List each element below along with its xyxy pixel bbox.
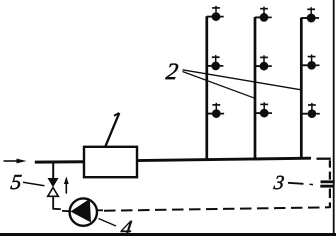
valve V4 riser1 middle xyxy=(207,55,224,70)
leader dash for label 3 xyxy=(288,183,304,184)
label 5 xyxy=(10,175,21,189)
label 4 xyxy=(120,221,132,235)
valve V9 riser3 bottom xyxy=(301,103,320,118)
stub below valve 5 xyxy=(52,197,54,207)
wire dashed expansion drop segment 3 xyxy=(329,189,331,198)
wire dash from main to corner xyxy=(317,158,331,160)
leader line label2 to riser3 xyxy=(183,70,302,90)
valve V2 riser2 top xyxy=(255,7,272,22)
valve V7 riser1 bottom xyxy=(207,103,224,118)
bottom border line xyxy=(0,233,336,236)
valve V1 riser1 top xyxy=(207,6,224,21)
leader line for label 4 xyxy=(99,219,117,227)
valve 5 bowtie bottom open triangle xyxy=(48,188,59,197)
riser pipe 2 xyxy=(254,17,257,160)
pump P circle xyxy=(70,198,97,225)
label 1 xyxy=(105,113,120,148)
right border line xyxy=(333,0,335,235)
expansion tank connection 3 (two bars) xyxy=(321,180,335,183)
wire dashed expansion drop segment 2 xyxy=(329,172,331,180)
label 3 xyxy=(273,176,284,189)
valve V6 riser3 middle xyxy=(301,55,319,70)
leader line label2 to riser2 xyxy=(183,72,256,99)
wire main supply pipe left segment xyxy=(35,160,85,163)
wire dashed expansion drop segment 1 xyxy=(329,160,331,167)
wire return dashed line bottom xyxy=(104,207,330,210)
riser pipe 3 xyxy=(300,18,303,160)
valve V3 riser3 top xyxy=(301,7,319,22)
valve V8 riser2 bottom xyxy=(255,102,272,117)
flow direction up arrow xyxy=(64,176,69,193)
pump impeller triangle xyxy=(71,199,92,223)
wire main supply pipe right segment xyxy=(137,158,311,160)
label 2 xyxy=(165,64,178,80)
boiler U1 rectangle xyxy=(84,147,137,177)
pump inlet stub xyxy=(62,210,70,212)
wire dashed expansion drop segment 4 xyxy=(329,202,331,208)
leader line for label 5 xyxy=(23,182,45,186)
dashed elbow to pump xyxy=(53,206,61,209)
valve V5 riser2 middle xyxy=(255,55,272,70)
inlet flow arrow xyxy=(4,159,27,164)
make-up branch stub from main xyxy=(52,163,54,179)
valve 5 bowtie top filled triangle xyxy=(48,178,59,187)
riser pipe 1 xyxy=(205,16,208,160)
pump outlet stub xyxy=(97,209,103,211)
